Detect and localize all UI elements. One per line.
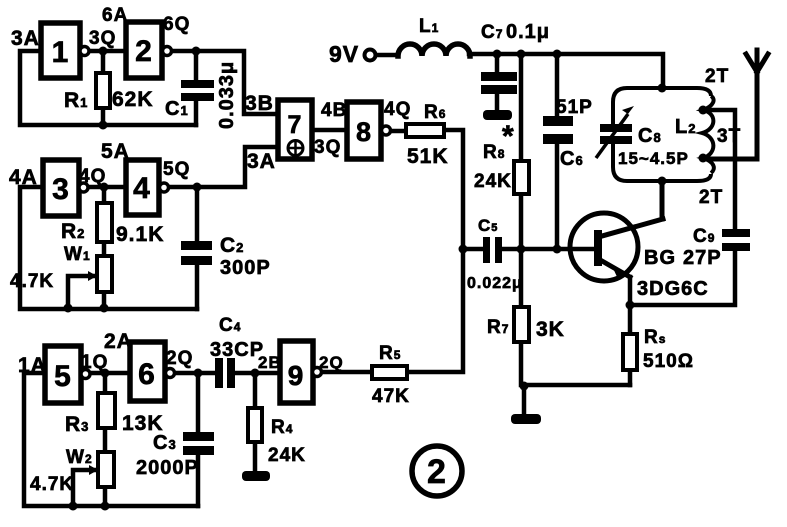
svg-text:R7: R7 — [487, 317, 509, 338]
svg-text:1A: 1A — [18, 354, 47, 377]
svg-text:9V: 9V — [329, 41, 359, 67]
svg-text:L2: L2 — [675, 116, 696, 138]
svg-text:1Q: 1Q — [81, 352, 108, 373]
svg-text:3A: 3A — [11, 27, 40, 50]
svg-text:4Q: 4Q — [384, 99, 411, 120]
svg-text:4.7K: 4.7K — [10, 271, 54, 292]
svg-text:2: 2 — [427, 453, 447, 491]
svg-text:4Q: 4Q — [79, 166, 106, 187]
svg-text:15~4.5P: 15~4.5P — [618, 149, 689, 168]
svg-text:2T: 2T — [705, 66, 729, 87]
svg-text:C8: C8 — [638, 125, 662, 147]
svg-text:R2: R2 — [61, 220, 85, 243]
svg-text:C9: C9 — [693, 226, 715, 247]
svg-text:24K: 24K — [268, 445, 306, 466]
svg-text:7: 7 — [288, 111, 303, 139]
svg-text:W2: W2 — [66, 447, 93, 468]
svg-text:Rs: Rs — [644, 327, 666, 348]
svg-text:47K: 47K — [372, 386, 410, 407]
svg-text:6A: 6A — [102, 5, 128, 26]
svg-text:C7: C7 — [481, 22, 503, 43]
svg-text:R3: R3 — [65, 413, 89, 436]
svg-text:3Q: 3Q — [89, 28, 116, 49]
svg-text:BG: BG — [644, 247, 676, 269]
svg-text:R4: R4 — [271, 417, 293, 438]
svg-text:C4: C4 — [219, 315, 241, 336]
svg-text:3Q: 3Q — [314, 137, 341, 158]
svg-text:C5: C5 — [478, 216, 498, 235]
svg-text:C2: C2 — [220, 234, 244, 257]
svg-text:3B: 3B — [245, 92, 274, 115]
svg-text:3T: 3T — [717, 126, 741, 147]
svg-text:6Q: 6Q — [163, 14, 190, 35]
svg-text:2Q: 2Q — [319, 353, 344, 372]
svg-text:4.7K: 4.7K — [30, 474, 74, 495]
svg-text:27P: 27P — [683, 247, 722, 269]
svg-text:51K: 51K — [407, 145, 449, 168]
svg-text:5A: 5A — [101, 140, 130, 163]
svg-text:33CP: 33CP — [210, 339, 264, 361]
svg-text:62K: 62K — [112, 88, 154, 111]
svg-text:R6: R6 — [424, 102, 446, 123]
svg-text:2Q: 2Q — [166, 348, 193, 369]
svg-text:C3: C3 — [153, 432, 177, 454]
svg-text:2A: 2A — [104, 330, 133, 353]
svg-text:4A: 4A — [9, 166, 38, 189]
svg-text:9: 9 — [288, 360, 305, 391]
svg-text:R5: R5 — [379, 343, 401, 364]
svg-text:2B: 2B — [258, 353, 282, 372]
svg-text:2: 2 — [135, 35, 153, 68]
svg-text:300P: 300P — [220, 257, 271, 279]
svg-text:2000P: 2000P — [136, 457, 199, 479]
svg-text:24K: 24K — [474, 171, 512, 192]
svg-text:3A: 3A — [247, 150, 276, 173]
svg-text:4: 4 — [133, 172, 151, 205]
svg-text:C1: C1 — [165, 98, 189, 120]
svg-text:3DG6C: 3DG6C — [637, 278, 709, 300]
svg-text:0.033μ: 0.033μ — [216, 61, 238, 129]
svg-text:W1: W1 — [64, 244, 91, 265]
svg-text:0.022μ: 0.022μ — [467, 275, 523, 292]
svg-text:3K: 3K — [536, 318, 565, 341]
svg-text:6: 6 — [138, 358, 156, 391]
svg-text:5: 5 — [54, 360, 72, 393]
svg-text:5Q: 5Q — [163, 159, 190, 180]
svg-text:0.1μ: 0.1μ — [506, 21, 550, 43]
svg-text:C6: C6 — [560, 148, 584, 170]
svg-text:8: 8 — [356, 117, 372, 147]
svg-text:9.1K: 9.1K — [116, 223, 164, 246]
svg-text:2T: 2T — [699, 187, 723, 208]
svg-text:3: 3 — [52, 173, 70, 206]
svg-text:510Ω: 510Ω — [643, 351, 694, 372]
svg-text:4B: 4B — [321, 100, 347, 121]
svg-text:1: 1 — [52, 36, 70, 69]
svg-text:51P: 51P — [556, 97, 593, 118]
svg-text:L1: L1 — [419, 16, 439, 37]
svg-text:R1: R1 — [64, 89, 88, 112]
